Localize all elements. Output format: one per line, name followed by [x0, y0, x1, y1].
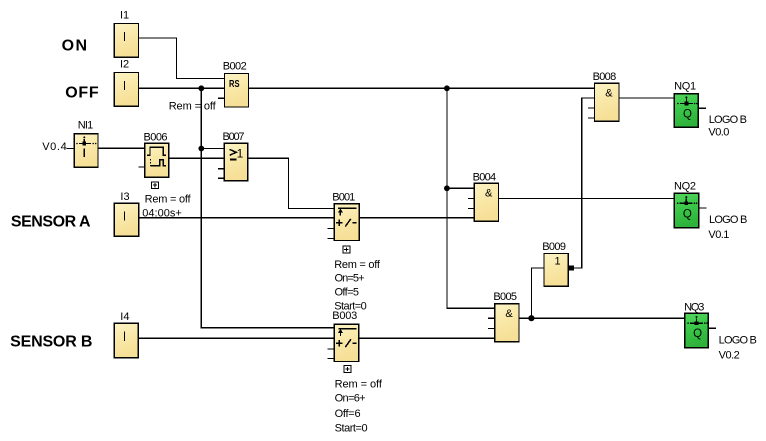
svg-text:On=6+: On=6+ — [335, 393, 366, 405]
counter B003 — [328, 324, 359, 361]
wire branch to B004 input 1 — [447, 187, 475, 189]
input I4 — [114, 323, 138, 357]
wire B002 to B008 input 1 — [249, 87, 595, 89]
wire B007 to B001 input 1 — [248, 158, 334, 208]
svg-text:ON: ON — [62, 38, 88, 55]
wire I3 to B001 input 2 — [139, 217, 334, 219]
svg-text:OFF: OFF — [65, 85, 99, 102]
wire OFF vertical bus to B003 input 1 — [201, 88, 334, 327]
svg-text:RS: RS — [229, 79, 240, 90]
wire V0.4 tick — [67, 147, 75, 149]
node junction B005 output — [528, 315, 534, 321]
pulse relay B006 — [138, 143, 168, 177]
wire B005 to NQ3 — [519, 317, 685, 319]
svg-text:V0.1: V0.1 — [708, 229, 729, 241]
wire I2 to B002 R input — [138, 87, 224, 89]
wire B003 to B005 input 4 — [359, 337, 495, 339]
network output NQ1 — [674, 94, 706, 127]
flip-flop B002 — [218, 74, 249, 108]
svg-text:B003: B003 — [332, 310, 357, 322]
input I1 — [114, 24, 138, 58]
svg-text:B006: B006 — [144, 131, 168, 143]
svg-text:Rem = off: Rem = off — [145, 193, 192, 205]
svg-text:SENSOR A: SENSOR A — [11, 213, 91, 230]
input I3 — [114, 203, 139, 236]
node B009 output square — [569, 265, 574, 270]
wire B004 to NQ2 — [499, 197, 675, 199]
svg-text:NI1: NI1 — [78, 120, 94, 132]
svg-text:NQ1: NQ1 — [674, 80, 696, 92]
svg-text:Rem = off: Rem = off — [335, 378, 383, 390]
svg-text:LOGO B: LOGO B — [719, 334, 757, 346]
svg-text:&: & — [605, 88, 613, 100]
svg-text:&: & — [485, 188, 493, 200]
svg-text:B009: B009 — [542, 241, 566, 253]
svg-text:Off=6: Off=6 — [335, 408, 361, 420]
svg-text:I4: I4 — [120, 311, 129, 323]
node junction B004 feed — [444, 185, 450, 191]
counter B001 — [328, 204, 360, 241]
svg-text:B008: B008 — [593, 71, 617, 83]
wire I1 to B002 S input — [138, 38, 224, 78]
wire branch to B009 input — [531, 268, 544, 318]
svg-text:V0.4: V0.4 — [42, 141, 66, 153]
svg-text:B007: B007 — [223, 131, 245, 143]
svg-text:B002: B002 — [223, 60, 247, 72]
svg-text:I3: I3 — [120, 191, 129, 203]
svg-text:B005: B005 — [493, 291, 517, 303]
or-gate B007 — [218, 143, 248, 181]
svg-text:Q: Q — [683, 108, 692, 120]
svg-text:1: 1 — [555, 255, 561, 267]
wire B006 to B007 input 2 — [169, 157, 225, 159]
and-gate B004 — [468, 183, 499, 221]
and-gate B008 — [588, 83, 619, 121]
svg-text:&: & — [505, 308, 513, 320]
svg-text:On=5+: On=5+ — [335, 273, 365, 285]
wire RS bus vertical to B005 input 1 — [447, 88, 495, 308]
svg-text:NQ2: NQ2 — [674, 181, 696, 193]
wire NI1 to B006 — [98, 147, 145, 149]
network output NQ3 — [685, 313, 717, 348]
svg-text:V0.2: V0.2 — [719, 350, 740, 362]
wire B009 to B008 input 2 — [568, 98, 594, 268]
wire I4 to B003 input 2 — [138, 337, 334, 339]
and-gate B005 — [488, 304, 519, 342]
wire B008 to NQ1 — [619, 97, 674, 99]
svg-text:I2: I2 — [120, 58, 129, 70]
svg-text:04:00s+: 04:00s+ — [142, 207, 182, 219]
wire branch to B007 input 1 — [201, 148, 224, 150]
svg-text:B001: B001 — [332, 191, 355, 203]
svg-text:V0.0: V0.0 — [708, 126, 729, 138]
svg-text:SENSOR B: SENSOR B — [10, 334, 92, 351]
node junction B007 feed — [198, 146, 204, 152]
svg-text:Off=5: Off=5 — [335, 287, 360, 299]
node junction I2/OFF — [198, 85, 204, 91]
not-gate B009 — [544, 254, 568, 287]
input I2 — [114, 73, 138, 107]
svg-text:I1: I1 — [120, 10, 129, 22]
svg-text:Start=0: Start=0 — [335, 423, 368, 435]
network output NQ2 — [674, 193, 706, 228]
network input NI1 — [74, 134, 98, 168]
svg-text:B004: B004 — [473, 171, 497, 183]
svg-text:LOGO B: LOGO B — [709, 114, 747, 126]
plus box B003 — [344, 366, 351, 373]
wire B001 to B004 input 4 — [359, 217, 474, 219]
svg-text:LOGO B: LOGO B — [709, 214, 747, 226]
node junction RS bus top — [444, 85, 450, 91]
plus box B001 — [343, 246, 350, 253]
svg-text:NQ3: NQ3 — [684, 302, 704, 314]
svg-text:Rem = off: Rem = off — [169, 100, 217, 112]
plus box B006 — [152, 182, 159, 189]
svg-text:Q: Q — [693, 328, 702, 340]
svg-text:1: 1 — [237, 147, 244, 161]
svg-text:Q: Q — [683, 208, 692, 220]
svg-text:Rem = off: Rem = off — [334, 259, 381, 271]
